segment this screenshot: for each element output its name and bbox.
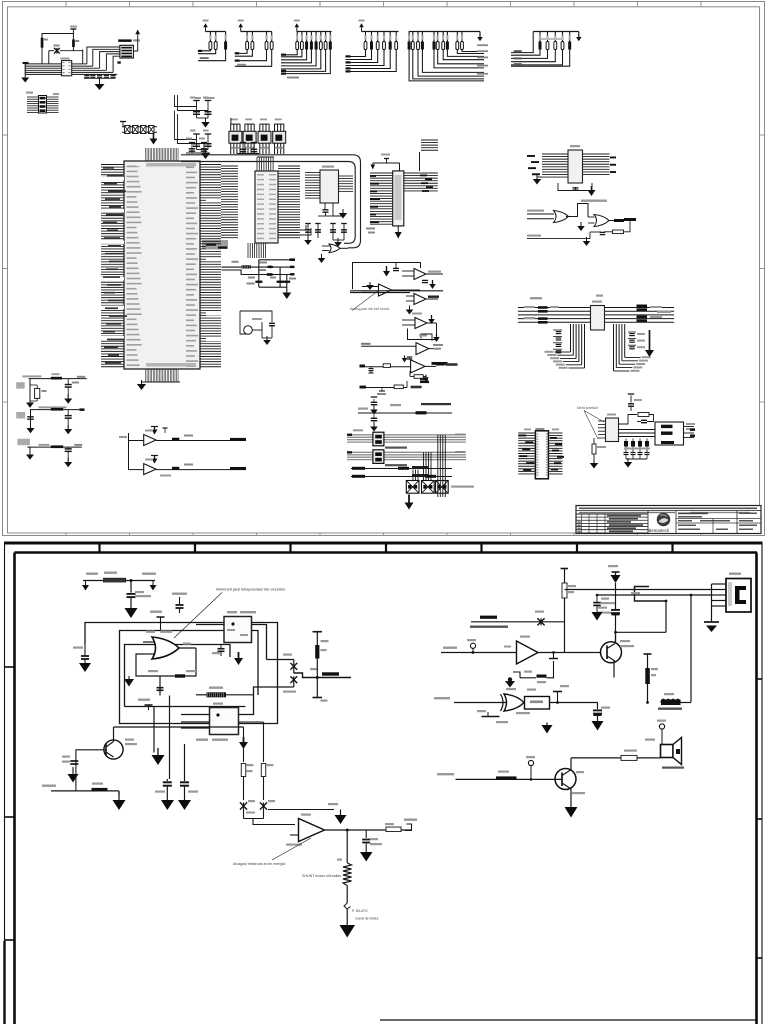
ic U8 [591, 295, 605, 331]
bus mcu to U2 [221, 166, 238, 238]
cap C70 [628, 394, 642, 411]
u2 bottom bundle [203, 240, 227, 249]
q20 base network [62, 750, 98, 791]
curved bus pair [181, 155, 361, 248]
or gate U7A [527, 204, 588, 223]
snubber branch [313, 632, 329, 702]
power arrow [328, 803, 347, 824]
analog mux circuit [518, 308, 674, 323]
jack connector J20 [726, 573, 751, 613]
iso connector K1 [406, 481, 419, 494]
ground [205, 150, 207, 154]
opamp A [362, 284, 420, 296]
iso cap 2 [371, 413, 378, 425]
svg-text:P. DILATO: P. DILATO [352, 909, 368, 913]
resistor R101 [72, 39, 79, 47]
net stubs left [477, 710, 508, 723]
diode D10 [49, 45, 83, 64]
power arrow [153, 134, 155, 139]
diode D21 [283, 676, 297, 694]
logo emblem [649, 511, 677, 534]
base pin [526, 756, 535, 781]
shunt resistor zigzag [302, 830, 352, 903]
ground [342, 209, 344, 213]
bus rectangle outer [85, 623, 278, 724]
opamp D with loop [402, 313, 440, 343]
net bar [117, 61, 120, 63]
ic U11 [598, 414, 619, 442]
sense resistors [624, 439, 651, 460]
output rc [346, 819, 417, 832]
cap C61 and arrow [421, 280, 436, 289]
u4 bottom stub [366, 226, 402, 239]
optocoupler OC1 [347, 429, 466, 448]
vcc arrow q21 [608, 565, 621, 609]
ground at U6 [533, 175, 542, 185]
speaker pin [657, 720, 666, 745]
title block [576, 506, 761, 534]
comparator wire top [185, 738, 335, 814]
main dual wire [350, 291, 443, 293]
npn Q21 [601, 640, 635, 663]
lower wire with resistor [360, 381, 422, 395]
bus U2 right risers [279, 225, 311, 236]
test point [344, 903, 379, 925]
annotation lines [577, 406, 604, 439]
mux left vertical bus [545, 324, 585, 369]
power arrow pair [542, 723, 553, 734]
power arrow [243, 737, 245, 742]
svg-text:SHUNT lezaro ellenallas: SHUNT lezaro ellenallas [302, 874, 341, 878]
ground [580, 222, 582, 226]
ground [337, 238, 339, 242]
ground [266, 336, 268, 340]
wire loop with resistors R100 R101 [42, 34, 73, 64]
ic U6 [527, 145, 616, 183]
ground arrow big [340, 925, 356, 938]
vcc stub [150, 611, 165, 631]
resistor network RN3 [258, 119, 271, 155]
ground [30, 424, 32, 428]
x cluster labels [160, 435, 193, 477]
buffer gate X1 [119, 427, 246, 471]
driver ic U20 [196, 611, 256, 645]
ground [67, 395, 69, 399]
u2 top stubs [257, 157, 274, 171]
jumper ladder JP1 [120, 122, 157, 134]
power arrow [238, 652, 240, 658]
u11 bus [619, 430, 656, 437]
jack pins [712, 584, 727, 606]
ic U4 [370, 171, 404, 226]
svg-text:Canal de bulles: Canal de bulles [355, 917, 379, 921]
u4 power feed [371, 154, 400, 171]
page2 frame [4, 542, 763, 1024]
svg-text:Mérő áramkör: Mérő áramkör [577, 406, 599, 410]
q22 collector [571, 750, 661, 771]
ground [67, 458, 69, 462]
relay contact [631, 587, 667, 603]
opamp B [402, 269, 443, 280]
iso vertical buses [413, 435, 474, 497]
ground arrow [113, 800, 126, 810]
u6 bottom loop [558, 183, 592, 191]
rc pair [619, 413, 657, 425]
mux right caps [628, 332, 645, 349]
ground [67, 425, 69, 429]
ground arrows pair [161, 800, 191, 810]
vref cap network [247, 260, 297, 293]
resistor pack RP10 [524, 306, 559, 324]
iso ground arrow [408, 495, 410, 503]
reference circuit W2 [16, 406, 84, 427]
vcc bar [70, 26, 77, 34]
mcu right pin bus [200, 165, 222, 367]
ground small [124, 676, 136, 687]
decoupling capacitors C22 C23 [175, 111, 212, 150]
comparator input loop [244, 793, 296, 825]
bus rectangle inner [125, 645, 246, 707]
buffer gate X2 [129, 456, 247, 475]
or gate G1 [143, 631, 196, 660]
resistor network RN2 [243, 119, 256, 155]
ground [409, 306, 411, 310]
bus above U4 [420, 140, 439, 171]
connector J2 [26, 92, 59, 114]
pull-up group J6 [346, 20, 399, 73]
page1 outer border frame [3, 2, 765, 536]
mcu bottom pin stubs [146, 369, 179, 382]
ground below mcu [137, 380, 180, 390]
pnp Q20 [98, 727, 137, 759]
ferrite block FB1 [118, 39, 140, 58]
opamp C [406, 294, 439, 305]
xor gate U24 [434, 688, 524, 711]
f feedback resistor [410, 371, 429, 382]
vcc tick [553, 685, 569, 704]
cap on F input [369, 367, 374, 373]
measure box [655, 422, 695, 445]
ground [627, 458, 629, 462]
comparator U22 [284, 814, 347, 846]
u4 right bundle [404, 173, 438, 192]
mux right vertical bus [614, 324, 651, 372]
annotation energy [233, 838, 311, 866]
divider resistors [114, 722, 274, 800]
net label bars [420, 362, 451, 405]
ground [321, 254, 323, 258]
w2 cap branch [65, 410, 72, 428]
mux caps column [553, 330, 562, 353]
mux labels [530, 297, 542, 299]
ground [586, 237, 588, 241]
mic input wire [42, 759, 119, 795]
ic U3 [305, 166, 353, 204]
jack wires [565, 590, 712, 703]
ground arrow [282, 293, 291, 300]
filter caps row [84, 74, 116, 84]
mcu U1 [124, 161, 200, 369]
caps C42 C43 [330, 224, 347, 241]
ground arrow [125, 608, 138, 618]
ic U2 [255, 171, 278, 243]
output bracket [294, 668, 351, 683]
optocoupler OC2 [347, 450, 466, 467]
gate feedback wires [128, 648, 196, 696]
title fields [676, 511, 761, 534]
aux cap C81 [172, 593, 187, 614]
jack cap to gnd [593, 594, 615, 612]
mcu left pin labels [103, 167, 127, 364]
q22 base [437, 771, 562, 781]
q22 emitter [565, 789, 578, 818]
opamp A feedback loop [353, 263, 421, 290]
speaker SP1 [645, 738, 684, 769]
svg-text:Atmeneti jack lekapcsolasi ido: Atmeneti jack lekapcsolasi ido vezerles [216, 587, 285, 592]
left cap C82 [73, 644, 89, 663]
or gate U7B [581, 200, 636, 227]
mcu U1 pin grid bottom [146, 363, 196, 367]
buffer amp U23 [441, 636, 601, 665]
reference circuit W3 [17, 439, 82, 453]
vref wire 2 [222, 269, 295, 276]
vcc bar stubs [138, 699, 208, 712]
u21 wires [181, 687, 289, 736]
iso top rail [358, 397, 452, 414]
lower wires [351, 466, 452, 478]
npn Q22 [555, 769, 585, 795]
power arrow [386, 266, 388, 271]
mcu top-left vcc wires [146, 92, 175, 148]
w1 cap branch [65, 379, 79, 398]
q21 collector net [614, 601, 666, 643]
svg-text:Atvagasi elektroda ai ele ener: Atvagasi elektroda ai ele energia [233, 862, 285, 866]
resistor R100 [41, 38, 48, 48]
resistor network RN1 [229, 118, 242, 154]
ground [205, 118, 207, 122]
net arrow right [150, 581, 157, 591]
svg-text:Bemartech: Bemartech [649, 528, 670, 533]
u2 inner labels [257, 174, 276, 239]
out polar cap [592, 703, 611, 731]
bus right of U2 [278, 166, 300, 238]
cap between E F [402, 356, 413, 363]
ground arrow [68, 774, 79, 783]
zener line [470, 611, 565, 628]
fb output to vcc [133, 30, 140, 52]
output bundle [72, 64, 118, 75]
polar cap C86 [598, 607, 620, 643]
mux gnd arrow [649, 330, 651, 350]
opamp E circuit [361, 334, 443, 355]
ground [373, 406, 375, 410]
jack shield gnd [704, 606, 719, 632]
diode D20 [267, 654, 298, 674]
xor gate U5A [322, 244, 348, 253]
caps C40 C41 with grounds [305, 224, 321, 239]
power arrow [591, 186, 593, 190]
pull-up group J5 [281, 20, 332, 79]
driver ic U21 [196, 703, 239, 741]
ground arrow [79, 663, 91, 672]
decoupling capacitors C20 C21 [175, 95, 212, 118]
iso connector K2 [422, 481, 435, 494]
u11 left resistor [592, 438, 606, 461]
resistor pack RP11 [637, 305, 672, 322]
driver ic U20 wires [212, 625, 267, 668]
riser staircase to ferrite [87, 47, 120, 72]
ic U9 [518, 428, 564, 479]
ground [307, 236, 309, 240]
ground [369, 282, 371, 285]
svg-text:Analog part elé eső verzió: Analog part elé eső verzió [350, 307, 389, 311]
opamp F circuit [360, 360, 458, 373]
pull-up group J3 [195, 20, 227, 100]
outer loop right [258, 623, 281, 724]
pull-up group J7 [408, 32, 488, 81]
oscillator circuit [240, 311, 275, 338]
mcu U1 left pin labels [127, 166, 142, 367]
bulk caps C83 C84 [155, 744, 198, 800]
small gnd [592, 612, 603, 621]
ground dot [505, 677, 515, 687]
input cap C80 [127, 579, 152, 608]
bypass caps C32 C33 [237, 143, 259, 154]
net arrow left [82, 581, 89, 591]
pull-up group J4 [235, 20, 273, 67]
ground arrow left [21, 75, 29, 83]
inductor L1 [550, 693, 691, 710]
long feed wires [85, 660, 184, 779]
fuse resistor F1 [83, 572, 156, 583]
mid ground arrow [152, 748, 165, 765]
w3 cap branch [65, 447, 72, 461]
ground arrow center [95, 84, 105, 90]
ground [373, 423, 375, 427]
mcu U1 right pin labels [186, 167, 198, 368]
filter box [516, 689, 598, 715]
cap C85 [362, 830, 382, 852]
reference circuit W1 [16, 373, 87, 401]
ground [29, 451, 31, 455]
vref top wire [259, 258, 295, 261]
resistor network RN4 [273, 119, 286, 155]
ground [593, 459, 595, 463]
regulator U10 [61, 58, 72, 76]
gate resistor dark [196, 687, 254, 698]
u3 bottom circuit [318, 203, 342, 216]
q21 emitter [603, 661, 614, 684]
pull-up group J8 [511, 32, 582, 67]
lower wire with cap [527, 221, 630, 239]
divider resistor R30 [561, 569, 577, 653]
mcu left pin bus [101, 165, 125, 367]
annotation jack note [174, 587, 285, 639]
mcu U1 pin grid top [146, 163, 196, 167]
detector diodes [240, 800, 275, 819]
bypass caps C30 C31 [186, 138, 210, 154]
vref wire 1 [222, 261, 295, 269]
iso connector K3 [436, 481, 449, 494]
ground arrow [360, 852, 373, 862]
power input circuit [23, 62, 62, 75]
right edge labels [690, 429, 695, 437]
bus U2 to rn2 row [248, 243, 266, 258]
mcu top pin stubs [146, 148, 179, 161]
annotation arrow [350, 291, 389, 311]
ground [29, 399, 31, 403]
mid resistor R31 [644, 654, 659, 704]
feedback loop [513, 651, 558, 683]
cap C60 [392, 263, 399, 271]
